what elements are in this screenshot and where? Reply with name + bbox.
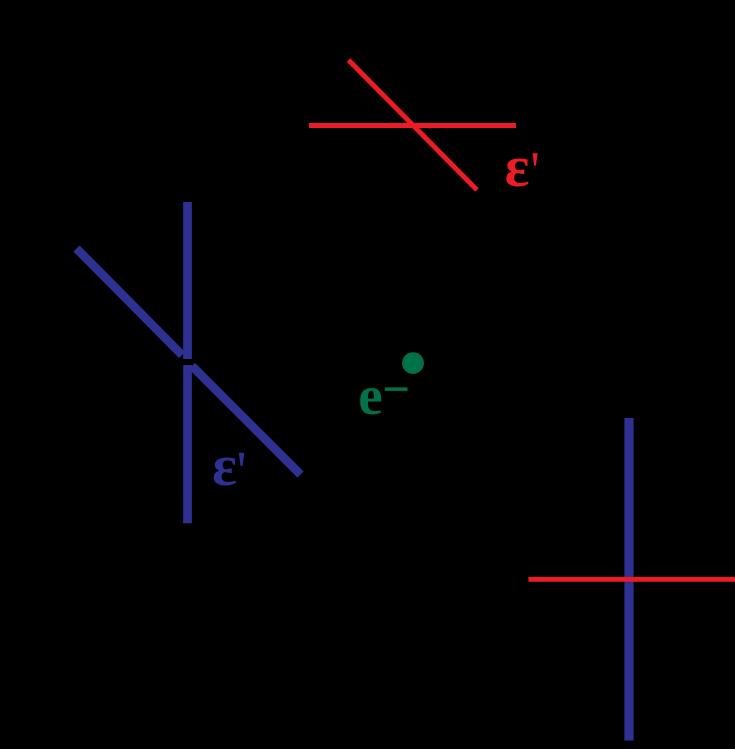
svg-text:ε: ε [212, 433, 237, 498]
svg-text:': ' [237, 441, 247, 503]
svg-text:': ' [530, 143, 539, 200]
svg-text:ε: ε [505, 134, 530, 199]
svg-text:e: e [358, 365, 382, 426]
